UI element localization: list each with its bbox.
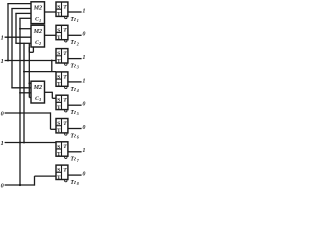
- svg-text:0: 0: [1, 110, 4, 117]
- svg-text:4: 4: [76, 88, 79, 93]
- trigger Tg5 inverse output circle: [65, 110, 67, 112]
- trigger Tg6 inner dividers: [61, 119, 63, 133]
- XOR mod-2 adder C3 box: [31, 81, 45, 103]
- wire V3 bottom corner into C2 input 4: [15, 42, 31, 44]
- wire stub C3 input 4: [29, 97, 31, 99]
- svg-text:0: 0: [82, 102, 85, 108]
- svg-text:Т: Т: [63, 144, 67, 150]
- wire vertical bus V5 x=24 (from C2 input-4 line down to Tg7 line): [23, 43, 25, 143]
- svg-text:Тг: Тг: [70, 157, 76, 163]
- svg-text:Тг: Тг: [70, 87, 76, 93]
- trigger Tg7 inverse output circle: [65, 156, 67, 158]
- wire branch V4 into C3 input 3: [20, 92, 31, 94]
- junction dot V4 on Tg7 1-line: [19, 142, 21, 144]
- svg-text:М2: М2: [33, 85, 42, 91]
- wire vertical bus V3 x=16 (into C1 input 3 and C2 input 4): [15, 13, 17, 43]
- svg-text:Т: Т: [57, 12, 61, 18]
- svg-text:0: 0: [82, 172, 85, 178]
- svg-text:1: 1: [82, 78, 85, 84]
- svg-text:S: S: [57, 168, 60, 174]
- wire trigger Tg8 output: [68, 174, 82, 176]
- trigger Tg1 inverse output circle: [65, 16, 67, 18]
- junction dot V4 crossing C2 input 4 line: [19, 42, 21, 44]
- svg-text:Т: Т: [57, 58, 61, 64]
- wire vertical bus V1 x=8 (feedback into C1 input 1): [7, 4, 9, 61]
- svg-text:Т: Т: [57, 105, 61, 111]
- svg-text:1: 1: [82, 55, 85, 61]
- wire C3 output with jog down to trigger Tg5 S-input: [45, 91, 53, 93]
- trigger Tg2 box: [56, 25, 68, 39]
- wire horizontal V1 top into C1 input 1: [7, 3, 31, 5]
- wire branch V4 into C2 input 1: [20, 28, 31, 30]
- wire 0-line y=113 toward trigger Tg6: [5, 112, 51, 114]
- wire trigger Tg4 output: [68, 81, 82, 83]
- trigger Tg5 box: [56, 95, 68, 109]
- wire vertical jog x=51.8 joining Tg3 line to Tg4 line: [51, 61, 53, 72]
- trigger Tg6 inverse output circle: [65, 133, 67, 135]
- svg-text:1: 1: [82, 148, 85, 154]
- trigger Tg4 box: [56, 72, 68, 86]
- svg-text:Т: Т: [63, 168, 67, 174]
- trigger Tg4 inner dividers: [61, 72, 63, 86]
- wire horizontal V3 top into C1 input 3: [15, 12, 31, 14]
- wire trigger Tg2 output: [68, 34, 82, 36]
- junction dot V5 crossing on Tg3 line: [23, 60, 25, 62]
- junction dot V5 at Tg4 branch: [23, 71, 25, 73]
- svg-text:Т: Т: [63, 28, 67, 34]
- wire vertical bus V4 x=20 (into C1 input 4, C2 input 1, C3 input 3): [19, 18, 21, 185]
- wire vertical bus V2 x=12 (into C1 input 2 and C3 input 2): [11, 9, 13, 88]
- svg-text:3: 3: [76, 65, 79, 70]
- wire jog down into trigger Tg6 T-input: [50, 112, 52, 129]
- svg-text:1: 1: [82, 8, 85, 14]
- junction dot V4 at C3 input 3: [19, 92, 21, 94]
- trigger Tg5 inner dividers: [61, 95, 63, 109]
- svg-text:1: 1: [77, 18, 79, 23]
- trigger Tg3 box: [56, 49, 68, 63]
- trigger Tg8 inner dividers: [61, 165, 63, 179]
- svg-text:Т: Т: [63, 51, 67, 57]
- wire C1 output to trigger Tg1 T-input: [45, 11, 57, 13]
- svg-text:Тг: Тг: [70, 180, 76, 186]
- junction dot V5 crossing C3 input 2 line: [23, 87, 25, 89]
- svg-text:0: 0: [82, 125, 85, 131]
- XOR mod-2 adder C1 box: [31, 2, 45, 24]
- wire 1-line y=37.2 into C2 input 3: [5, 36, 31, 38]
- svg-text:1: 1: [1, 140, 4, 147]
- wire branch V5 into trigger Tg4 S-input: [24, 71, 56, 73]
- svg-text:S: S: [57, 74, 60, 80]
- svg-text:М2: М2: [33, 5, 42, 11]
- junction dot V5 bottom end on Tg7 1-line: [23, 142, 25, 144]
- junction dot V1 bottom end on Tg3 line: [7, 60, 9, 62]
- XOR mod-2 adder C2 box: [31, 25, 45, 47]
- wire trigger Tg1 output: [68, 11, 82, 13]
- wire 1-line y=60.5 to trigger Tg3 T-input: [5, 60, 56, 62]
- svg-text:S: S: [57, 121, 60, 127]
- svg-text:0: 0: [1, 182, 4, 189]
- trigger Tg6 box: [56, 119, 68, 133]
- svg-text:Т: Т: [63, 121, 67, 127]
- junction dot V4 bottom end on 0-line: [19, 184, 21, 186]
- junction dot V4 at C2 input 1: [19, 28, 21, 30]
- svg-text:1: 1: [39, 19, 41, 23]
- wire horizontal V4 top into C1 input 4: [19, 17, 31, 19]
- trigger Tg1 box: [56, 2, 68, 16]
- svg-text:Тг: Тг: [70, 64, 76, 70]
- svg-text:1: 1: [1, 35, 4, 42]
- svg-text:Т: Т: [63, 98, 67, 104]
- svg-text:Тг: Тг: [70, 17, 76, 23]
- svg-text:3: 3: [38, 98, 41, 102]
- wire hook under C2 (branch of input-4 line to C2 bottom pin): [28, 43, 30, 52]
- trigger Tg4 inverse output circle: [65, 86, 67, 88]
- svg-text:5: 5: [77, 111, 79, 116]
- wire trigger Tg6 output: [68, 128, 82, 130]
- svg-text:0: 0: [82, 32, 85, 38]
- junction dot V4 crossing C3 input 2 line: [19, 87, 21, 89]
- svg-text:1: 1: [1, 58, 4, 65]
- trigger Tg8 inverse output circle: [65, 179, 67, 181]
- junction dot C3 input 1: [28, 82, 30, 84]
- svg-text:S: S: [57, 5, 60, 11]
- trigger Tg3 inverse output circle: [65, 63, 67, 65]
- svg-text:2: 2: [38, 42, 41, 46]
- svg-text:Т: Т: [57, 175, 61, 181]
- junction dot V1 on 1-line: [7, 36, 9, 38]
- svg-text:Т: Т: [57, 82, 61, 88]
- wire trigger Tg7 output: [68, 151, 82, 153]
- trigger Tg1 inner dividers: [61, 2, 63, 16]
- trigger Tg2 inverse output circle: [65, 40, 67, 42]
- svg-text:Т: Т: [63, 74, 67, 80]
- wire trigger Tg3 output: [68, 58, 82, 60]
- svg-text:М2: М2: [33, 29, 42, 35]
- wire C2 output to trigger Tg2 T-input: [45, 34, 57, 36]
- svg-text:Тг: Тг: [70, 40, 76, 46]
- svg-text:Т: Т: [57, 128, 61, 134]
- svg-text:Тг: Тг: [70, 133, 76, 139]
- wire 1-line y=142.5 to trigger Tg7 S-input: [5, 142, 56, 144]
- svg-text:2: 2: [76, 41, 79, 46]
- svg-text:8: 8: [77, 181, 79, 186]
- svg-text:Тг: Тг: [70, 110, 76, 116]
- wire stub C3 input 1: [29, 82, 31, 84]
- junction dot V4 on 0-line: [19, 112, 21, 114]
- trigger Tg3 inner dividers: [61, 49, 63, 63]
- wire jog up into trigger Tg8 T-input: [34, 176, 36, 186]
- wire 0-line y=185 toward trigger Tg8: [5, 184, 35, 186]
- svg-text:6: 6: [77, 135, 79, 140]
- svg-text:S: S: [57, 144, 60, 150]
- svg-text:S: S: [57, 51, 60, 57]
- svg-text:Т: Т: [57, 152, 61, 158]
- wire horizontal V2 top into C1 input 2: [11, 8, 31, 10]
- svg-text:Т: Т: [63, 4, 67, 10]
- trigger Tg7 inner dividers: [61, 142, 63, 156]
- svg-text:S: S: [57, 98, 60, 104]
- svg-text:S: S: [57, 28, 60, 34]
- svg-text:Т: Т: [57, 35, 61, 41]
- wire trigger Tg5 output: [68, 104, 82, 106]
- trigger Tg7 box: [56, 142, 68, 156]
- wire vertical x=29.3 from C2 down to C3 inputs: [28, 47, 30, 98]
- wire V2 bottom into C3 input 2: [11, 87, 31, 89]
- trigger Tg8 box: [56, 165, 68, 179]
- junction dot at Tg3 line / jog: [51, 60, 53, 62]
- trigger Tg2 inner dividers: [61, 25, 63, 39]
